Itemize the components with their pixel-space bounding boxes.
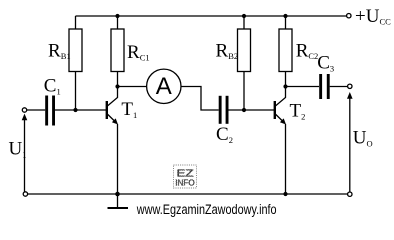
svg-text:+UCC: +UCC xyxy=(355,6,391,27)
svg-text:T2: T2 xyxy=(290,101,306,122)
svg-text:C2: C2 xyxy=(216,124,233,145)
svg-text:RB2: RB2 xyxy=(216,40,239,61)
svg-text:U1: U1 xyxy=(9,139,27,160)
svg-text:www.EgzaminZawodowy.info: www.EgzaminZawodowy.info xyxy=(136,202,277,217)
svg-text:RC1: RC1 xyxy=(127,42,150,63)
svg-text:RB1: RB1 xyxy=(48,40,71,61)
svg-text:INFO: INFO xyxy=(175,178,195,188)
svg-text:A: A xyxy=(156,73,172,100)
svg-text:RC2: RC2 xyxy=(296,41,319,62)
svg-text:UO: UO xyxy=(353,128,373,149)
svg-text:C3: C3 xyxy=(317,52,334,73)
svg-text:T1: T1 xyxy=(121,99,137,120)
svg-text:C1: C1 xyxy=(44,75,61,96)
